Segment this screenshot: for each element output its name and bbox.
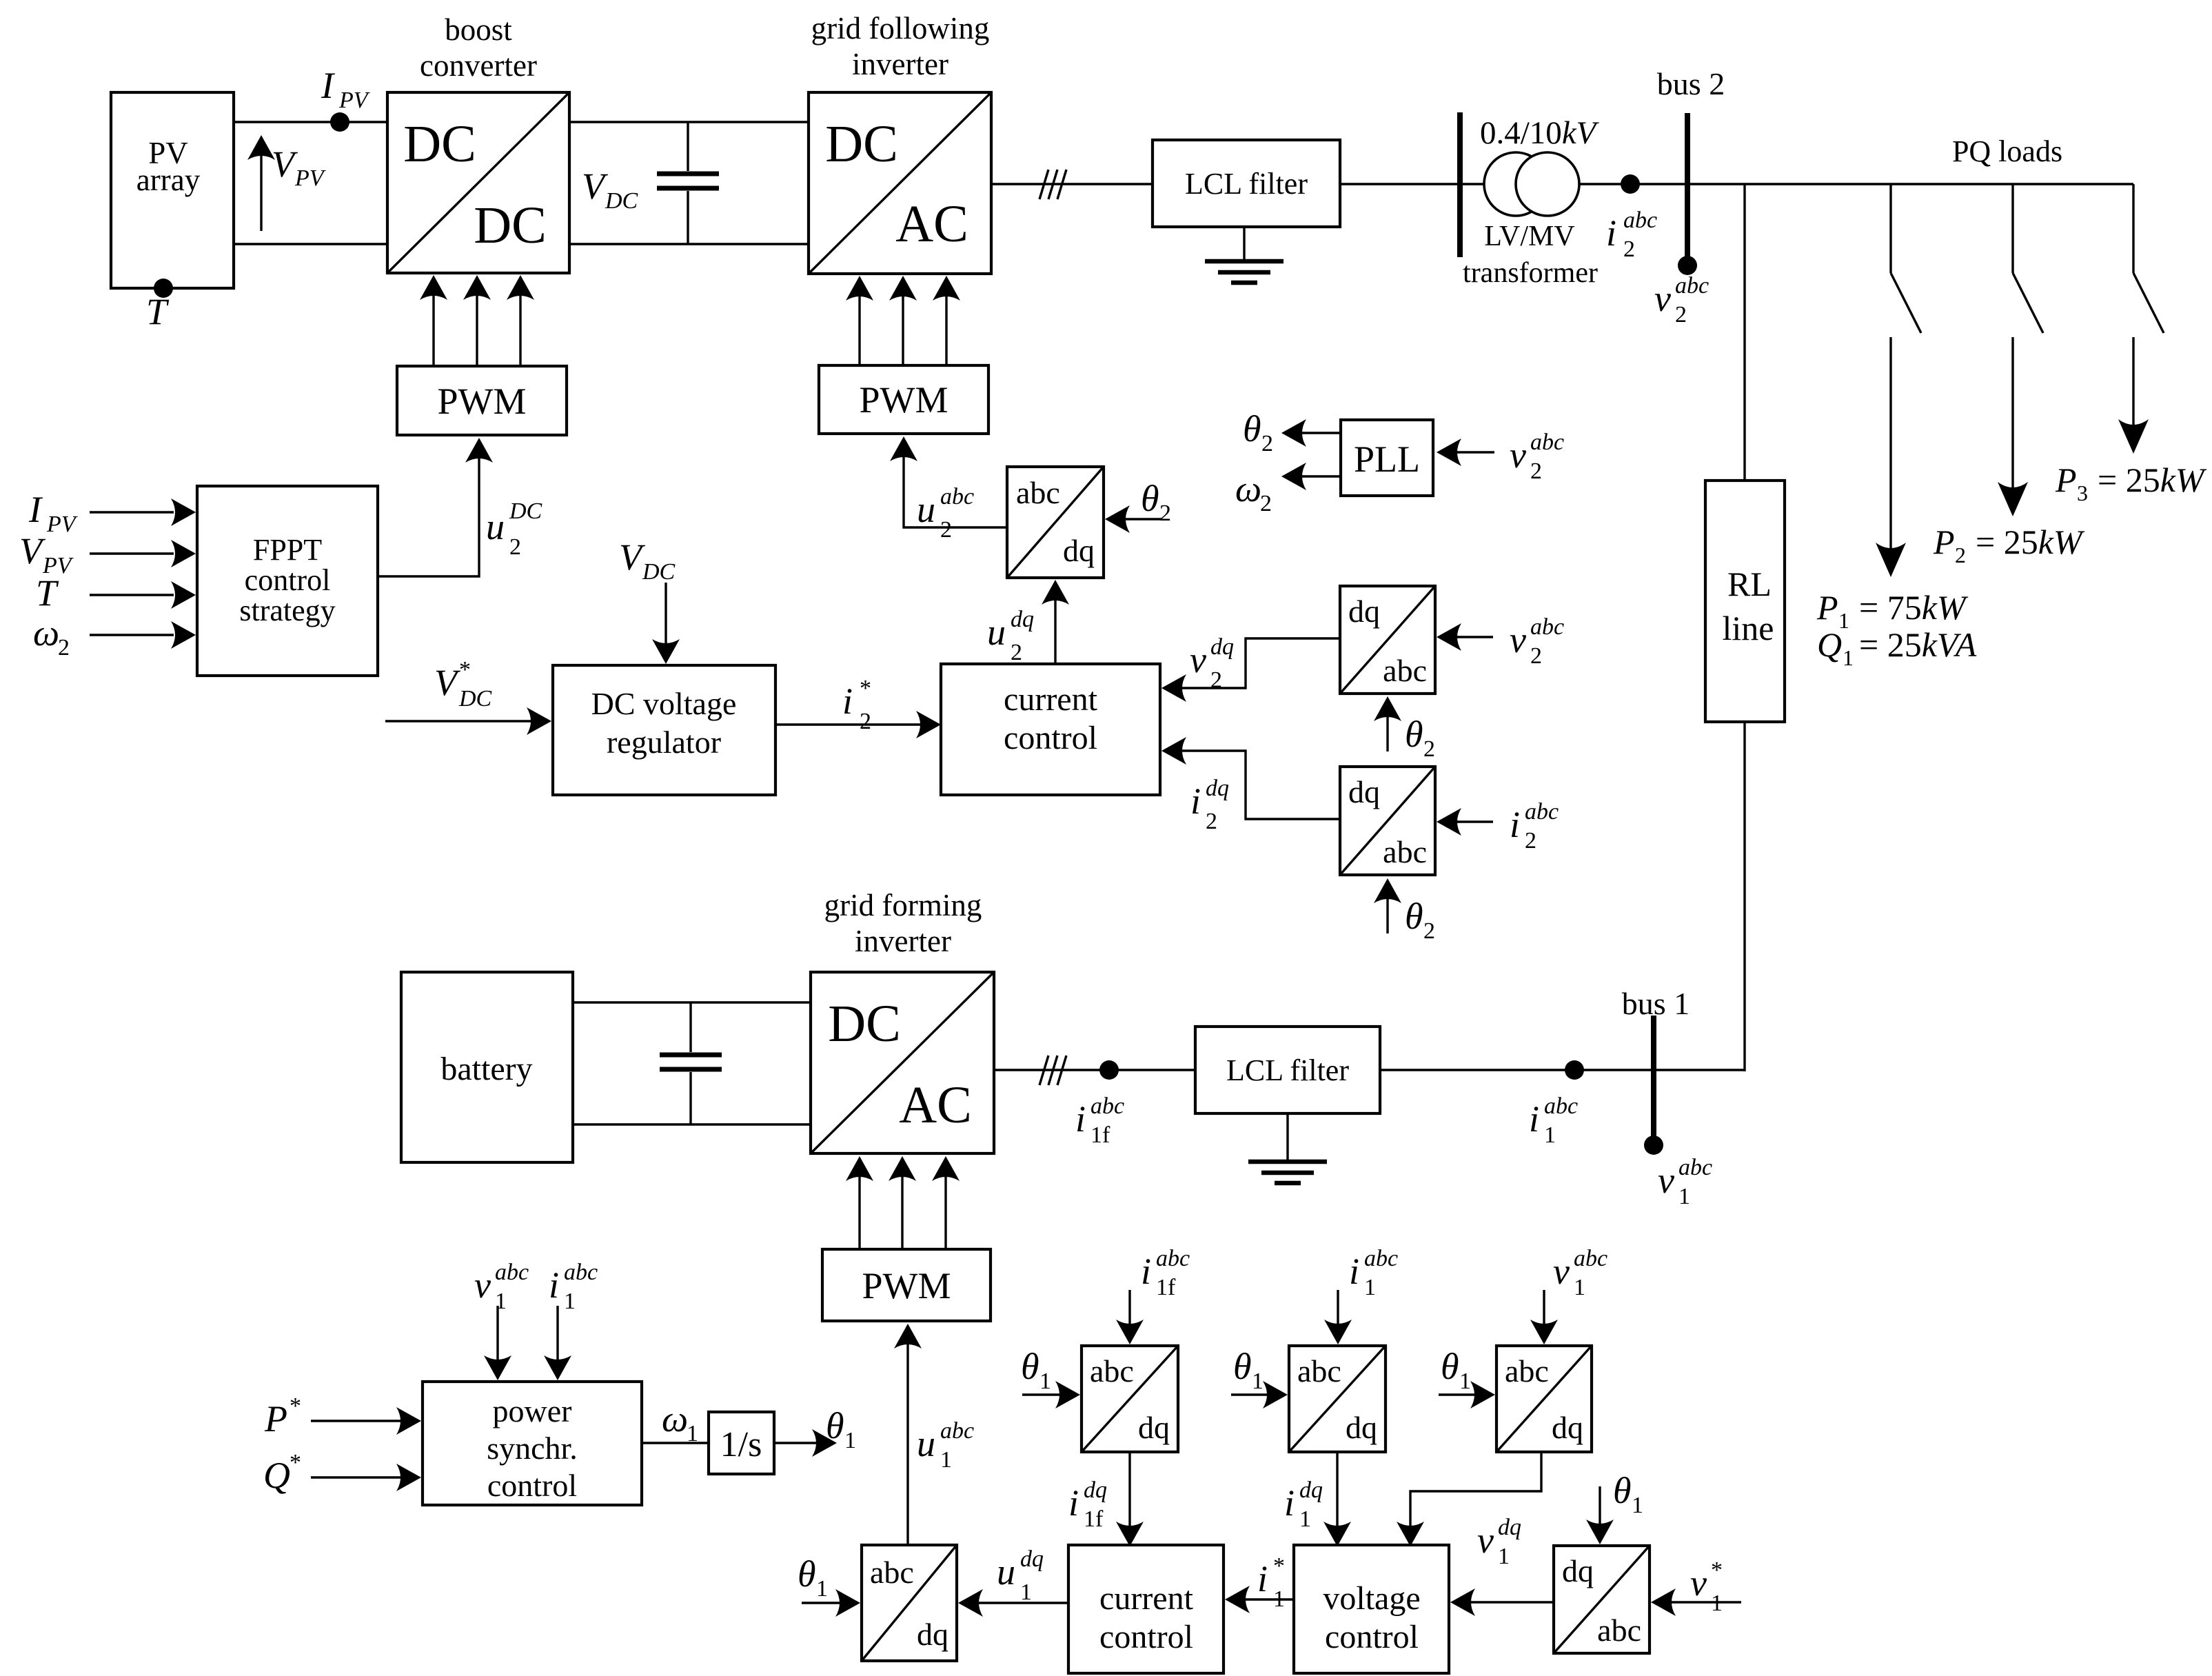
arrow theta1 out of integrator xyxy=(774,1429,837,1457)
label P* xyxy=(264,1393,301,1440)
svg-text:1: 1 xyxy=(1273,1586,1285,1612)
svg-text:abc: abc xyxy=(564,1260,598,1285)
svg-text:2: 2 xyxy=(1955,543,1966,567)
label i1f dq xyxy=(1068,1477,1107,1532)
svg-text:= 75kW: = 75kW xyxy=(1859,588,1969,627)
label theta1 u1 box xyxy=(798,1553,828,1602)
label V_DC link xyxy=(582,165,638,214)
svg-text:P: P xyxy=(2055,461,2077,499)
svg-text:RL: RL xyxy=(1727,565,1772,603)
arrow input V_PV to FPPT xyxy=(90,540,196,567)
svg-text:ω: ω xyxy=(1235,468,1261,509)
svg-text:i: i xyxy=(1606,212,1616,254)
svg-text:dq: dq xyxy=(1552,1410,1583,1445)
svg-text:1: 1 xyxy=(940,1447,952,1473)
svg-text:u: u xyxy=(987,612,1006,653)
PLL box xyxy=(1341,420,1433,496)
svg-text:1: 1 xyxy=(687,1421,698,1446)
capacitor DC link 1 xyxy=(657,122,719,244)
label omega2 PLL out xyxy=(1235,468,1272,516)
svg-text:1: 1 xyxy=(1678,1184,1690,1209)
grid forming inverter DC/AC box xyxy=(811,972,994,1153)
arrow v1ref dq into voltage control xyxy=(1450,1588,1554,1616)
svg-text:AC: AC xyxy=(895,195,968,253)
load 1 arrow P1 xyxy=(1876,337,1906,577)
svg-text:strategy: strategy xyxy=(239,594,335,627)
svg-text:DC: DC xyxy=(828,995,901,1053)
svg-text:θ: θ xyxy=(1405,714,1423,755)
wire PV array top to boost converter xyxy=(234,121,387,123)
svg-text:boost: boost xyxy=(445,12,512,47)
current control box 2 xyxy=(1068,1545,1224,1673)
wire AC output bus2 main xyxy=(991,183,2133,185)
svg-text:1/s: 1/s xyxy=(720,1425,762,1464)
dq/abc converter i2 box xyxy=(1340,767,1435,875)
svg-text:control: control xyxy=(245,563,331,597)
label theta2 PLL out xyxy=(1243,408,1273,456)
svg-text:i: i xyxy=(549,1264,559,1306)
FPPT control strategy box xyxy=(197,486,378,676)
load 2 arrow P2 xyxy=(1998,337,2028,516)
svg-text:u: u xyxy=(997,1551,1015,1593)
arrow i1abc into i1 box top xyxy=(1324,1290,1352,1344)
node i2abc dot xyxy=(1621,174,1640,194)
arrow i1dq down to voltage control xyxy=(1323,1452,1351,1546)
svg-text:dq: dq xyxy=(1348,594,1380,629)
svg-text:1: 1 xyxy=(1299,1506,1311,1532)
label v1abc in xyxy=(1553,1246,1607,1300)
svg-text:θ: θ xyxy=(1613,1470,1632,1511)
label theta2 u2 box xyxy=(1141,478,1171,526)
label i*1 xyxy=(1257,1553,1285,1612)
label i2abc in xyxy=(1510,799,1559,854)
svg-text:abc: abc xyxy=(1090,1093,1124,1119)
label theta1 out xyxy=(826,1405,856,1453)
svg-text:v: v xyxy=(474,1264,491,1306)
LCL filter 1 box xyxy=(1153,140,1340,227)
svg-text:1: 1 xyxy=(1252,1369,1264,1394)
svg-text:1: 1 xyxy=(564,1289,576,1314)
label v1abc node xyxy=(1658,1155,1712,1209)
ground below LCL filter 1 xyxy=(1205,227,1283,283)
svg-text:1f: 1f xyxy=(1156,1275,1176,1300)
wire PV array bottom to boost converter xyxy=(234,243,387,245)
svg-text:dq: dq xyxy=(1206,776,1229,801)
label DC voltage regulator xyxy=(591,686,737,760)
svg-text:current: current xyxy=(1004,681,1098,718)
svg-text:abc: abc xyxy=(1623,208,1657,233)
label Q* xyxy=(263,1450,301,1496)
arrow v2abc into PLL xyxy=(1437,438,1494,466)
label boost converter xyxy=(420,12,537,83)
label current control 1 xyxy=(1004,681,1098,756)
svg-text:voltage: voltage xyxy=(1323,1580,1420,1617)
svg-text:u: u xyxy=(486,506,505,547)
label theta1 i1f box xyxy=(1021,1346,1051,1394)
label theta1 v1ref box xyxy=(1613,1470,1643,1518)
svg-text:abc: abc xyxy=(1530,430,1564,455)
svg-text:= 25kW: = 25kW xyxy=(2098,461,2207,499)
svg-text:1: 1 xyxy=(1574,1275,1585,1300)
label Q1 = 25kVA xyxy=(1817,625,1977,670)
arrow input T to FPPT xyxy=(90,581,196,609)
svg-text:I: I xyxy=(321,65,336,106)
arrow input I_PV to FPPT xyxy=(90,498,196,526)
svg-text:= 25kVA: = 25kVA xyxy=(1859,625,1977,664)
label P2 = 25kW xyxy=(1933,523,2085,567)
arrow omega2 out of PLL xyxy=(1281,463,1341,490)
svg-text:*: * xyxy=(860,676,871,701)
wire omega1 to integrator xyxy=(642,1442,709,1444)
label voltage control xyxy=(1323,1580,1420,1655)
svg-text:v: v xyxy=(1190,639,1206,680)
svg-text:v: v xyxy=(1477,1519,1494,1561)
load 3 arrow P3 xyxy=(2118,337,2149,454)
label power synchr control xyxy=(487,1393,578,1503)
svg-text:PQ loads: PQ loads xyxy=(1952,134,2062,168)
svg-text:abc: abc xyxy=(870,1555,914,1590)
svg-text:abc: abc xyxy=(1505,1353,1549,1389)
load 2 branch switch xyxy=(2013,184,2043,333)
svg-text:2: 2 xyxy=(1530,458,1542,484)
transformer primary bar xyxy=(1457,112,1463,257)
svg-text:Q: Q xyxy=(1817,625,1842,664)
svg-text:PLL: PLL xyxy=(1354,438,1420,480)
label v1abc psc in xyxy=(474,1260,529,1314)
svg-text:2: 2 xyxy=(1260,491,1272,516)
label v2abc xyxy=(1654,273,1709,327)
label u2abc xyxy=(917,484,974,543)
load 3 branch switch xyxy=(2133,184,2164,333)
svg-text:3: 3 xyxy=(2077,481,2088,505)
svg-text:1: 1 xyxy=(1459,1369,1471,1394)
svg-text:v: v xyxy=(1553,1251,1570,1292)
svg-text:battery: battery xyxy=(440,1051,532,1087)
svg-text:θ: θ xyxy=(1441,1346,1459,1387)
label u2DC xyxy=(486,498,542,560)
label i1dq xyxy=(1284,1477,1323,1532)
label theta1 i1 box xyxy=(1233,1346,1264,1394)
svg-text:u: u xyxy=(917,1423,935,1464)
svg-text:2: 2 xyxy=(1206,809,1217,834)
svg-text:abc: abc xyxy=(1574,1246,1607,1271)
label omega1 xyxy=(662,1398,698,1446)
svg-text:LCL filter: LCL filter xyxy=(1185,167,1308,201)
label current control 2 xyxy=(1099,1580,1194,1655)
svg-text:abc: abc xyxy=(1675,273,1709,299)
PWM1 box xyxy=(397,366,567,435)
arrow v1abc into v1 box top xyxy=(1530,1290,1558,1344)
svg-text:v: v xyxy=(1690,1562,1707,1604)
svg-text:2: 2 xyxy=(1525,828,1536,854)
svg-text:abc: abc xyxy=(1383,653,1427,688)
svg-text:1: 1 xyxy=(1632,1493,1643,1518)
svg-text:u: u xyxy=(917,489,935,530)
svg-text:LCL filter: LCL filter xyxy=(1226,1053,1349,1087)
svg-text:dq: dq xyxy=(1138,1410,1170,1445)
label u1dq xyxy=(997,1546,1044,1605)
wire battery top xyxy=(573,1001,811,1003)
svg-text:converter: converter xyxy=(420,48,537,83)
arrow v1ref into v1ref box xyxy=(1651,1588,1741,1616)
svg-text:dq: dq xyxy=(1348,774,1380,809)
svg-text:dq: dq xyxy=(1011,607,1034,632)
label P3 = 25kW xyxy=(2055,461,2207,505)
svg-text:i: i xyxy=(1257,1558,1268,1599)
svg-text:dq: dq xyxy=(1498,1515,1521,1540)
wire DC link bottom xyxy=(569,243,809,245)
label V_PV xyxy=(272,143,327,191)
wire u1abc up to PWM3 xyxy=(894,1324,922,1545)
svg-text:1: 1 xyxy=(1498,1544,1510,1569)
svg-text:θ: θ xyxy=(1243,408,1261,450)
wire RL line down to bus 1 xyxy=(1743,722,1745,1071)
svg-text:2: 2 xyxy=(860,709,871,734)
arrow P* into psc xyxy=(311,1407,421,1435)
svg-text:abc: abc xyxy=(1383,834,1427,869)
svg-text:abc: abc xyxy=(1090,1353,1134,1389)
svg-text:PV: PV xyxy=(338,88,371,113)
battery box xyxy=(401,972,573,1162)
svg-text:i: i xyxy=(1190,780,1201,822)
svg-text:LV/MV: LV/MV xyxy=(1484,221,1574,252)
label i1 abc xyxy=(1529,1093,1578,1148)
svg-text:PWM: PWM xyxy=(437,381,526,422)
arrow theta1 into v1ref box top xyxy=(1586,1486,1614,1544)
PWM3 gate arrows to inverter2 xyxy=(846,1156,960,1249)
svg-text:DC: DC xyxy=(825,115,898,173)
arrow V_DC into DC voltage regulator xyxy=(652,583,680,664)
svg-text:i: i xyxy=(1284,1482,1295,1524)
svg-text:2: 2 xyxy=(58,635,70,660)
LCL filter 2 box xyxy=(1195,1027,1380,1113)
svg-text:inverter: inverter xyxy=(852,47,948,81)
arrow theta1 into i1f box xyxy=(1022,1381,1080,1409)
label v2abc in xyxy=(1510,614,1564,669)
label theta2 v2 box xyxy=(1405,714,1435,762)
abc/dq converter u2 box xyxy=(1007,467,1104,578)
svg-text:abc: abc xyxy=(1678,1155,1712,1180)
label i1f abc in xyxy=(1141,1246,1190,1300)
svg-text:P: P xyxy=(1933,523,1955,561)
label FPPT control strategy xyxy=(239,533,335,627)
svg-text:DC voltage: DC voltage xyxy=(591,686,737,721)
svg-text:i: i xyxy=(842,680,853,722)
svg-text:bus 2: bus 2 xyxy=(1657,66,1725,101)
PWM3 box xyxy=(822,1249,991,1321)
arrow theta1 into v1 box xyxy=(1439,1381,1495,1409)
svg-text:1f: 1f xyxy=(1090,1122,1110,1148)
arrow i2abc into i2 box xyxy=(1437,808,1493,836)
node i1 dot xyxy=(1565,1060,1584,1080)
node T dot xyxy=(154,279,173,298)
svg-text:inverter: inverter xyxy=(855,924,951,958)
abc/dq converter v1 box xyxy=(1496,1346,1592,1452)
PV array box xyxy=(111,92,234,288)
svg-text:dq: dq xyxy=(1562,1553,1594,1588)
label v1dq xyxy=(1477,1515,1521,1569)
svg-text:1: 1 xyxy=(495,1289,507,1314)
svg-text:i: i xyxy=(1349,1251,1359,1292)
label v2dq xyxy=(1190,634,1234,693)
svg-text:2: 2 xyxy=(1530,643,1542,669)
dq/abc converter v1ref box xyxy=(1554,1546,1650,1653)
label V_DC mid xyxy=(619,536,676,585)
svg-text:i: i xyxy=(1510,804,1520,845)
svg-text:= 25kW: = 25kW xyxy=(1976,523,2085,561)
svg-text:synchr.: synchr. xyxy=(487,1431,578,1466)
svg-text:θ: θ xyxy=(1233,1346,1252,1387)
label LV/MV transformer xyxy=(1463,221,1598,289)
label input V_PV xyxy=(19,530,74,578)
node I_PV dot xyxy=(330,112,349,132)
wire v2dq to current control xyxy=(1161,638,1340,702)
svg-text:θ: θ xyxy=(1141,478,1159,519)
boost converter DC/DC box xyxy=(387,92,569,273)
svg-text:0.4/10kV: 0.4/10kV xyxy=(1480,115,1600,151)
svg-text:i: i xyxy=(1068,1482,1079,1524)
bus 2 bar xyxy=(1685,113,1690,258)
label v2abc PLL in xyxy=(1510,430,1564,484)
bus 1 bar xyxy=(1651,1016,1656,1138)
wire u2DC from FPPT to PWM1 xyxy=(378,438,493,576)
svg-text:i: i xyxy=(1529,1098,1539,1140)
svg-text:DC: DC xyxy=(642,559,676,585)
arrow i1f abc into i1f box top xyxy=(1116,1290,1144,1344)
arrow i*1 from voltage control to current control xyxy=(1225,1586,1294,1613)
label RL line xyxy=(1723,565,1774,647)
svg-text:P: P xyxy=(264,1398,287,1440)
label i*2 xyxy=(842,676,871,734)
svg-text:1: 1 xyxy=(1039,1369,1051,1394)
label u2dq xyxy=(987,607,1034,665)
arrow Q* into psc xyxy=(311,1464,421,1491)
arrow i1abc into power synchr control xyxy=(544,1306,571,1380)
svg-text:θ: θ xyxy=(1405,896,1423,937)
svg-text:P: P xyxy=(1816,588,1838,627)
svg-text:dq: dq xyxy=(1299,1477,1323,1503)
svg-text:abc: abc xyxy=(1297,1353,1341,1389)
svg-text:bus 1: bus 1 xyxy=(1622,986,1690,1021)
svg-text:*: * xyxy=(459,657,471,683)
abc/dq converter i1f box xyxy=(1082,1346,1178,1452)
svg-text:T: T xyxy=(146,291,170,332)
abc/dq converter u1 box xyxy=(862,1545,957,1661)
label i1f abc xyxy=(1075,1093,1124,1148)
svg-text:2: 2 xyxy=(1423,918,1435,944)
svg-text:PWM: PWM xyxy=(859,379,948,421)
dq/abc converter v2 box xyxy=(1340,586,1435,694)
svg-text:abc: abc xyxy=(1156,1246,1190,1271)
label i1abc in xyxy=(1349,1246,1398,1300)
arrow i1f dq down to current control xyxy=(1116,1452,1144,1546)
svg-text:DC: DC xyxy=(474,196,547,254)
arrow theta2 into i2 box bottom xyxy=(1374,878,1401,933)
svg-text:AC: AC xyxy=(899,1076,972,1134)
svg-text:control: control xyxy=(1325,1619,1419,1655)
arrow theta2 into v2 box bottom xyxy=(1374,696,1401,751)
node v2abc dot xyxy=(1678,256,1697,275)
label u1abc xyxy=(917,1418,974,1473)
svg-text:2: 2 xyxy=(1210,667,1222,693)
svg-text:2: 2 xyxy=(1011,640,1022,665)
svg-text:*: * xyxy=(1273,1553,1285,1579)
svg-text:DC: DC xyxy=(458,686,492,711)
svg-text:T: T xyxy=(36,572,59,614)
svg-text:1f: 1f xyxy=(1084,1506,1104,1532)
svg-text:ω: ω xyxy=(662,1398,688,1440)
wire battery bottom xyxy=(573,1123,811,1125)
grid following inverter DC/AC box xyxy=(809,92,991,274)
svg-text:DC: DC xyxy=(509,498,542,524)
svg-text:dq: dq xyxy=(1084,1477,1107,1503)
label theta1 v1 box xyxy=(1441,1346,1471,1394)
svg-text:line: line xyxy=(1723,609,1774,647)
label i1abc psc in xyxy=(549,1260,598,1314)
arrow v2abc into v2 box xyxy=(1437,623,1493,651)
svg-text:2: 2 xyxy=(509,534,521,560)
svg-text:control: control xyxy=(1004,720,1097,756)
svg-text:dq: dq xyxy=(1020,1546,1044,1572)
svg-text:v: v xyxy=(1658,1160,1674,1201)
PWM2 gate arrows to inverter1 xyxy=(846,276,960,365)
arrow u2dq up to abc/dq xyxy=(1042,580,1069,664)
svg-text:2: 2 xyxy=(1261,431,1273,456)
svg-text:2: 2 xyxy=(940,517,952,543)
svg-text:abc: abc xyxy=(1544,1093,1578,1119)
svg-text:i: i xyxy=(1141,1251,1151,1292)
DC voltage regulator box xyxy=(553,665,775,795)
svg-text:θ: θ xyxy=(1021,1346,1039,1387)
arrow i*2 to current control xyxy=(775,711,941,738)
label input omega2 xyxy=(33,612,70,660)
arrow V*DC into DC voltage regulator xyxy=(385,707,551,735)
svg-text:dq: dq xyxy=(1346,1410,1377,1445)
label i2abc xyxy=(1606,208,1657,262)
load 1 branch switch xyxy=(1891,184,1921,333)
svg-text:DC: DC xyxy=(403,115,476,173)
arrow theta2 into u2 box xyxy=(1105,505,1161,533)
wire AC output bus1 main xyxy=(994,1069,1745,1071)
svg-text:abc: abc xyxy=(1364,1246,1398,1271)
svg-text:abc: abc xyxy=(1016,475,1060,510)
svg-text:2: 2 xyxy=(1623,236,1635,262)
label theta2 i2 box xyxy=(1405,896,1435,944)
svg-text:2: 2 xyxy=(1675,302,1687,327)
current control box 1 xyxy=(941,664,1160,795)
three-phase marks inverter2 output xyxy=(1039,1056,1066,1085)
three-phase marks inverter1 output xyxy=(1039,170,1066,199)
label input I_PV xyxy=(28,489,79,537)
svg-text:abc: abc xyxy=(1530,614,1564,640)
transformer LV/MV circles xyxy=(1484,152,1579,216)
svg-text:θ: θ xyxy=(798,1553,816,1595)
capacitor DC link 2 xyxy=(660,1002,722,1124)
svg-text:ω: ω xyxy=(33,612,59,654)
svg-text:PV: PV xyxy=(294,165,327,191)
svg-text:abc: abc xyxy=(1525,799,1559,825)
svg-text:PV: PV xyxy=(46,512,79,537)
svg-text:1: 1 xyxy=(1711,1591,1723,1616)
arrow v1abc into power synchr control xyxy=(484,1306,511,1380)
arrow input omega2 to FPPT xyxy=(90,621,196,649)
svg-text:abc: abc xyxy=(1597,1613,1641,1648)
arrow u1dq from current control to u1 box xyxy=(958,1589,1068,1617)
svg-text:abc: abc xyxy=(940,484,974,509)
svg-text:current: current xyxy=(1099,1580,1194,1617)
svg-text:dq: dq xyxy=(1210,634,1234,660)
ground below LCL filter 2 xyxy=(1248,1113,1327,1183)
